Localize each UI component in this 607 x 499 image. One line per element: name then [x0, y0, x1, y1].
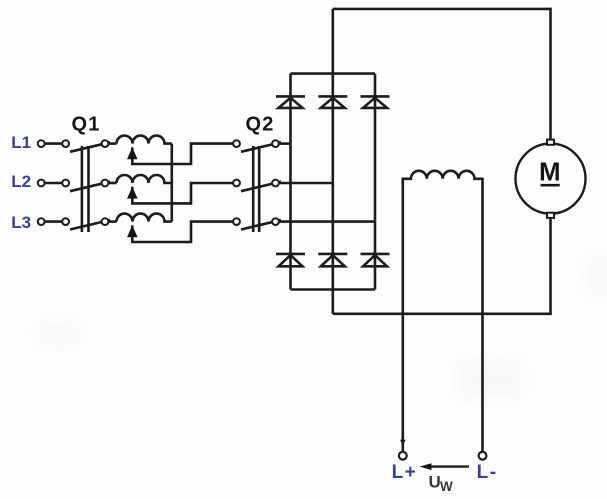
svg-text:Q1: Q1 [72, 114, 101, 136]
svg-text:W: W [440, 479, 453, 494]
svg-text:U: U [429, 472, 441, 491]
svg-text:L1: L1 [11, 133, 31, 152]
svg-text:L+: L+ [392, 462, 418, 483]
svg-text:L-: L- [477, 462, 498, 483]
svg-text:M: M [539, 156, 561, 186]
svg-text:L3: L3 [11, 213, 31, 232]
svg-text:Q2: Q2 [246, 114, 275, 136]
svg-text:L2: L2 [11, 172, 31, 191]
